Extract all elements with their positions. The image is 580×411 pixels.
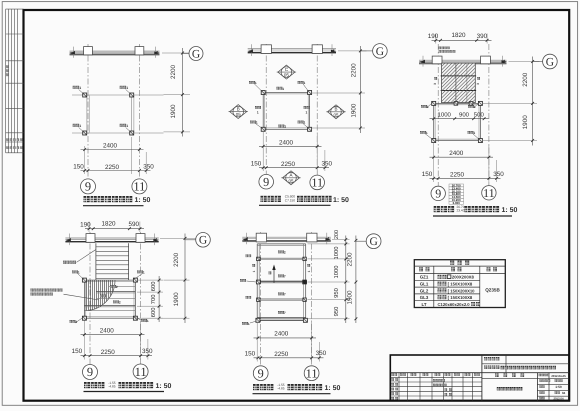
view3 dim text 1900 (vertical) (522, 115, 529, 130)
view2 dim text 2250 (281, 161, 296, 168)
view3 dim text 900 (459, 112, 470, 119)
view2 section diamond B/05 right (326, 105, 345, 119)
svg-text:590: 590 (128, 221, 139, 228)
svg-text:1900: 1900 (346, 290, 353, 305)
svg-text:9: 9 (263, 175, 269, 189)
svg-text:190: 190 (428, 33, 439, 40)
view5 joint squares mid beam (256, 280, 307, 284)
view5 left beam label lower (246, 296, 252, 299)
view2 wall column at grid 11 (312, 45, 322, 54)
svg-text:2200: 2200 (170, 65, 177, 80)
svg-text:1: 1 (143, 271, 145, 275)
svg-text:2400: 2400 (449, 150, 464, 157)
view4 dim text 150 (72, 348, 83, 355)
view3 right dimension line (531, 57, 534, 146)
svg-text:11: 11 (135, 365, 147, 379)
view4 ladder annotation text (63, 250, 96, 264)
view5 beam label level1 (278, 251, 286, 255)
view4 dim text 190 (80, 221, 91, 228)
title block label 工程名称 (484, 366, 499, 369)
svg-text:C120x60x20x2.0: C120x60x20x2.0 (438, 302, 471, 307)
material table row GL2 (420, 288, 475, 293)
view1 grid line 11 (dash-dot) (138, 44, 140, 179)
svg-text:G: G (546, 56, 554, 68)
view3 wall right end arrow (502, 60, 508, 63)
svg-text:2250: 2250 (101, 349, 116, 356)
svg-text:1900: 1900 (170, 104, 177, 119)
view3 bottom dim line 150/2250/350 (430, 160, 501, 182)
svg-text:9: 9 (258, 366, 264, 380)
view2 dim text 350 (321, 161, 332, 168)
svg-text:1: 50: 1: 50 (333, 197, 349, 204)
material table row GL1 (420, 282, 473, 287)
view5 dim text 150 (245, 350, 256, 357)
view5 dim text 1900 (vertical) (346, 290, 353, 305)
svg-text:1: 1 (75, 320, 77, 324)
svg-text:2250: 2250 (274, 351, 289, 358)
view5 inner dim extension lines (308, 240, 350, 319)
svg-text:7: 7 (284, 275, 286, 279)
view1 right dimension line (181, 48, 184, 137)
view2 beam label GL1 (right) (304, 106, 310, 115)
svg-text:1: 1 (126, 124, 128, 128)
svg-text:3: 3 (476, 83, 480, 85)
view3 wall left end arrow (419, 60, 425, 63)
view5 dim text 1000 upper (vertical) (333, 247, 340, 260)
svg-text:1: 1 (304, 81, 306, 85)
title block header 图纸名称 (495, 373, 524, 377)
view3 wall column left (432, 56, 442, 64)
view4 dim text 1820 (101, 221, 116, 228)
view4 ladder rails (96, 243, 129, 280)
view3 grid line 11 (dash-dot) (488, 44, 490, 186)
svg-text:23.40: 23.40 (457, 209, 465, 213)
binding strip bottom row text (6, 139, 22, 149)
view4 shaft rectangle (84, 280, 135, 318)
title block right row 2 (539, 385, 562, 389)
view3 dim text 190 (428, 33, 439, 40)
svg-text:G: G (376, 46, 384, 58)
view2 beam label GL1 (bottom) (278, 125, 286, 129)
svg-text:2250: 2250 (105, 164, 120, 171)
svg-text:B: B (334, 107, 337, 112)
view1 wall left end arrow (69, 51, 75, 54)
svg-text:GL3: GL3 (420, 295, 429, 300)
title block right section lines (482, 373, 569, 401)
view2 shaft steel frame rectangle (263, 93, 309, 130)
view5 wall column at grid 11 (307, 233, 317, 242)
svg-text:2200: 2200 (350, 63, 357, 78)
svg-text:1: 50: 1: 50 (325, 385, 341, 392)
view1 grid bubble 9 (81, 179, 96, 194)
view4 interior dim extension lines (137, 280, 163, 318)
view4 dim text 1900 (vertical) (173, 292, 180, 307)
view1 shaft bottom edge line (72, 132, 164, 134)
view1 dim text 1900 (vertical) (170, 104, 177, 119)
view2 title underline (259, 204, 331, 206)
view1 wall column at grid 11 (135, 47, 144, 55)
svg-text:-4.85: -4.85 (108, 385, 115, 389)
view5 grid line 9 (dash-dot) (260, 232, 262, 366)
view5 title text (253, 383, 341, 392)
view5 beam label level2 (278, 275, 286, 279)
svg-text:350: 350 (321, 161, 332, 168)
svg-text:1000: 1000 (438, 112, 452, 119)
svg-text:350: 350 (142, 348, 153, 355)
view5 inner dimension line (344, 236, 347, 324)
svg-text:2250: 2250 (450, 172, 465, 179)
svg-text:900: 900 (459, 112, 470, 119)
material table header 材质 (487, 267, 498, 271)
svg-text:2400: 2400 (100, 327, 115, 334)
svg-text:1: 50: 1: 50 (156, 383, 172, 390)
view5 bottom dim line 150/2250/350 (254, 342, 324, 362)
view5 beam label level3 (278, 293, 286, 297)
view4 dim text 350 (142, 348, 153, 355)
view3 dim text 1000 (438, 112, 452, 119)
svg-text:1: 1 (257, 111, 259, 115)
view5 joint squares level4 (257, 298, 307, 301)
title block frame (390, 355, 569, 401)
view2 wall right end arrow (331, 49, 337, 52)
view2 right dimension line (359, 46, 362, 133)
view3 top dimension line 190/1820/390 (432, 34, 492, 44)
binding strip vertical label text (6, 66, 9, 77)
svg-text:C7.150: C7.150 (285, 198, 296, 202)
title block right row 4 (539, 397, 564, 401)
view3 dim text 1820 (451, 32, 466, 39)
view1 dim text 2200 (vertical) (170, 65, 177, 80)
svg-text:05: 05 (288, 178, 294, 183)
svg-text:GL1: GL1 (420, 282, 429, 287)
svg-text:9: 9 (435, 187, 441, 201)
view5 beam GL2 level 3 (heavy) (257, 281, 306, 283)
svg-text:1: 1 (255, 81, 257, 85)
view5 dim text 2200 (vertical) (346, 252, 353, 267)
svg-text:350: 350 (143, 163, 154, 170)
view1 dim text 2400 (103, 143, 118, 150)
svg-text:2200: 2200 (173, 252, 180, 267)
view2 dim text 2200 (vertical) (350, 63, 357, 78)
view5 shaft top beam (257, 244, 306, 246)
svg-text:150: 150 (72, 348, 83, 355)
view4 wall column at grid 11 (136, 234, 145, 243)
view5 dim text 200 (vertical) (334, 230, 340, 239)
view2 beam label GL1 (left) (255, 106, 261, 115)
material table row GZ1 (420, 275, 475, 280)
view1 shaft right side lines (132, 96, 134, 133)
view3 dim text 150 (422, 171, 433, 178)
view2 grid line 9 (dash-dot) (265, 44, 267, 175)
svg-text:1: 1 (307, 270, 311, 272)
view2 wall column at grid 9 (261, 45, 271, 54)
svg-text:1: 1 (78, 271, 80, 275)
svg-text:1: 1 (256, 121, 258, 125)
view5 beam label level4 (278, 311, 286, 315)
material table frame (414, 260, 505, 308)
view3 dim text 350 (493, 171, 504, 178)
view1 grid bubble G (183, 47, 204, 61)
view5 beam GL1 level 4 (257, 299, 306, 300)
title block right row 3 (539, 391, 565, 395)
view5 column label left (vertical) (252, 264, 256, 272)
svg-text:G: G (199, 235, 207, 247)
view5 top wall band (242, 233, 330, 245)
view4 dim text 2400 (100, 327, 115, 334)
view3 hatched slab (machine room opening) (441, 63, 476, 103)
svg-text:1: 50: 1: 50 (135, 197, 151, 204)
view5 grid line 11 (dash-dot) (311, 232, 313, 366)
view3 column GZ1 (br) (468, 131, 483, 143)
svg-text:2200: 2200 (522, 72, 529, 87)
svg-text:04: 04 (562, 391, 566, 395)
material table header 规格 (451, 267, 462, 271)
material table Q235B (485, 288, 500, 293)
view3 top wall band (419, 56, 507, 67)
svg-text:2012.04: 2012.04 (553, 397, 564, 401)
view4 grid bubble 11 (133, 364, 148, 379)
view4 dim text 590 (128, 221, 139, 228)
view5 dim text 2400 (274, 331, 289, 338)
view5 dim text 950 lower (vertical) (333, 307, 340, 317)
view4 bottom dim line 2400 (81, 321, 145, 360)
view5 left beam label upper (246, 255, 252, 258)
view1 shaft left side lines (87, 96, 89, 133)
view5 shaft bottom beam (256, 317, 307, 320)
view3 grid bubble 11 (482, 186, 496, 200)
view3 dim text 2250 (450, 172, 465, 179)
view2 right dimension extension lines (311, 51, 367, 128)
view2 grid line 11 (dash-dot) (316, 44, 318, 175)
view3 title underline (433, 215, 512, 217)
view1 column GZ1 (tr) (120, 86, 134, 97)
view5 bottom dim line 2400 (254, 322, 317, 362)
svg-text:390: 390 (477, 33, 488, 40)
view2 section diamond C/05 (277, 65, 296, 79)
svg-text:1: 1 (306, 111, 308, 115)
view1 right dimension extension lines (162, 53, 190, 132)
view5 corner label mid-left (240, 279, 256, 282)
svg-text:G: G (369, 236, 377, 248)
svg-text:2400: 2400 (103, 143, 118, 150)
svg-text:200X200X8: 200X200X8 (452, 275, 475, 280)
svg-text:11: 11 (311, 176, 323, 190)
view1 wall column at grid 9 (84, 47, 93, 55)
view1 dim text 350 (143, 163, 154, 170)
svg-text:150: 150 (251, 161, 262, 168)
view5 wall column at grid 9 (256, 233, 266, 242)
svg-text:350: 350 (316, 350, 327, 357)
view3 title text (434, 205, 518, 214)
view1 title text (84, 196, 151, 204)
title block revision header texts (391, 373, 480, 376)
view1 column GZ1 (br) (120, 124, 134, 135)
svg-text:150: 150 (73, 163, 84, 170)
svg-text:A: A (289, 173, 292, 178)
svg-text:05: 05 (284, 73, 290, 78)
svg-text:2400: 2400 (279, 139, 294, 146)
view2 grid bubble 9 (259, 174, 274, 189)
view4 grid bubble 9 (83, 365, 98, 380)
view2 bottom dim line 150/2250/350 (259, 150, 329, 171)
view5 grid bubble G (356, 234, 381, 249)
view4 dim text 600 lower (vertical) (150, 308, 157, 318)
svg-text:GL2: GL2 (420, 288, 429, 293)
title block cell date (551, 374, 566, 378)
svg-text:1:50: 1:50 (555, 385, 562, 389)
view4 dim text 2250 (101, 349, 116, 356)
view2 grid bubble G (360, 44, 387, 59)
view1 grid line 9 (dash-dot) (87, 44, 89, 179)
svg-text:7: 7 (284, 311, 286, 315)
svg-text:1900: 1900 (350, 103, 357, 118)
view3 column GZ1 (tl) (421, 101, 436, 109)
svg-text:1: 50: 1: 50 (502, 207, 518, 214)
svg-text:2200: 2200 (346, 252, 353, 267)
view1 column GZ1 (bl) (73, 124, 87, 135)
view3 wall column right (481, 56, 491, 64)
view4 title text (84, 381, 172, 390)
material table header 名称 (419, 267, 430, 271)
title block label 建设单位 (484, 357, 499, 360)
view5 wall right end arrow (326, 238, 332, 241)
svg-text:2: 2 (116, 285, 118, 289)
svg-text:1000: 1000 (333, 266, 340, 279)
view4 dim text 700 (vertical) (150, 295, 157, 305)
svg-text:950: 950 (333, 307, 340, 317)
title block right row 1 (539, 379, 562, 382)
svg-text:2250: 2250 (281, 161, 296, 168)
view4 interior dim line 600/700/600 (158, 276, 161, 322)
view1 shaft top edge line (72, 94, 164, 96)
svg-text:500: 500 (474, 112, 485, 119)
svg-text:1: 1 (427, 105, 429, 109)
view4 dim text 600 upper (vertical) (150, 282, 157, 292)
view4 top dimension line 190/1820/590 (85, 222, 144, 233)
svg-text:9: 9 (85, 180, 91, 194)
view5 joint squares level2 (257, 257, 307, 260)
view4 outer dim extension lines (142, 238, 196, 318)
title block revision grid lines (390, 373, 482, 401)
svg-text:11: 11 (306, 366, 318, 380)
view3 elevation list stack (449, 184, 464, 205)
view5 shaft right column (double line) (304, 244, 306, 320)
view4 column GZ1 (bl) (70, 316, 87, 324)
view2 dim text 150 (251, 161, 262, 168)
view5 dim text 1000 lower (vertical) (333, 266, 340, 279)
view3 column GZ1 (tr) (468, 101, 482, 109)
binding strip table frame (6, 9, 24, 153)
title block top rows lines (390, 355, 569, 401)
view3 slab side label right (476, 77, 480, 85)
svg-text:950: 950 (333, 288, 340, 298)
view1 bottom dim line 2400 (81, 137, 144, 174)
view4 beam labels (100, 285, 121, 305)
svg-text:700: 700 (150, 295, 157, 305)
view2 grid bubble 11 (310, 175, 325, 190)
svg-text:150: 150 (422, 171, 433, 178)
view1 title underline (83, 205, 144, 207)
view4 left annotation block (30, 289, 99, 300)
view5 beam GL1 level 2 (257, 258, 306, 259)
view3 grid bubble G (533, 54, 558, 69)
view2 wall left end arrow (247, 49, 253, 52)
svg-text:190: 190 (80, 221, 91, 228)
view3 slab side label left (433, 77, 437, 85)
material table row LT (421, 302, 480, 307)
view1 dim text 2250 (105, 164, 120, 171)
svg-text:150X200X10: 150X200X10 (450, 288, 475, 293)
view4 grid bubble G (185, 233, 210, 248)
title block drawing name 结构平面布置图 (497, 387, 523, 390)
view2 beam label GL1 (top) (276, 87, 284, 91)
view4 wall left end arrow (65, 239, 71, 242)
view5 dim text 350 (316, 350, 327, 357)
view4 column GZ1 (tr) (133, 271, 145, 283)
view5 column label right (vertical) (307, 264, 311, 272)
view1 grid bubble 11 (132, 179, 147, 194)
title block signature rows texts (391, 378, 451, 399)
view4 spiral stair fan with hatch (84, 280, 115, 311)
view4 column GZ1 (tl) (72, 271, 86, 283)
view5 up arrow symbol (269, 265, 276, 284)
svg-text:LT: LT (421, 302, 426, 307)
view3 annotation text (hatch note) (439, 47, 456, 53)
view1 top wall band (70, 47, 160, 58)
view5 shaft left column (double line) (257, 244, 259, 320)
svg-text:1: 1 (252, 270, 256, 272)
view5 dim text 2250 (274, 351, 289, 358)
view1 column GZ1 (tl) (73, 86, 87, 97)
view2 column GZ1 (bl) (250, 121, 265, 132)
svg-text:1: 1 (248, 322, 250, 326)
svg-text:9: 9 (87, 365, 93, 379)
material table title 材料表 (450, 261, 469, 265)
view5 dim text 950 upper (vertical) (333, 288, 340, 298)
svg-text:600: 600 (150, 308, 157, 318)
svg-text:-4.85: -4.85 (277, 387, 284, 391)
view2 bottom dim line 2400 (259, 131, 322, 171)
svg-text:05: 05 (236, 112, 242, 117)
svg-text:1: 1 (426, 131, 428, 135)
svg-text:1820: 1820 (101, 221, 116, 228)
view5 title underline (253, 393, 331, 395)
view4 outer dimension line (184, 234, 187, 324)
svg-text:1: 1 (304, 121, 306, 125)
view5 grid bubble 11 (304, 366, 319, 381)
svg-text:GZ1: GZ1 (420, 275, 429, 280)
view3 dim text 390 (477, 33, 488, 40)
svg-text:2: 2 (119, 301, 121, 305)
view4 grid line 9 (dash-dot) (89, 232, 91, 365)
title block project name text (501, 366, 557, 370)
svg-text:1820: 1820 (451, 32, 466, 39)
view5 outer dimension line (355, 236, 358, 324)
svg-text:150X100X8: 150X100X8 (450, 282, 473, 287)
svg-text:150: 150 (245, 350, 256, 357)
material table row GL3 (420, 295, 473, 300)
view3 top edge joint squares (454, 102, 473, 106)
view4 wall right end arrow (153, 239, 159, 242)
svg-text:1: 1 (284, 125, 286, 129)
view2 column GZ1 (tr) (298, 81, 312, 95)
svg-text:G: G (192, 48, 200, 60)
view2 column GZ1 (br) (298, 121, 312, 132)
view4 wall column at grid 9 (86, 234, 95, 243)
svg-text:1: 1 (474, 105, 476, 109)
view3 right dimension extension lines (482, 62, 540, 141)
svg-text:1900: 1900 (173, 292, 180, 307)
